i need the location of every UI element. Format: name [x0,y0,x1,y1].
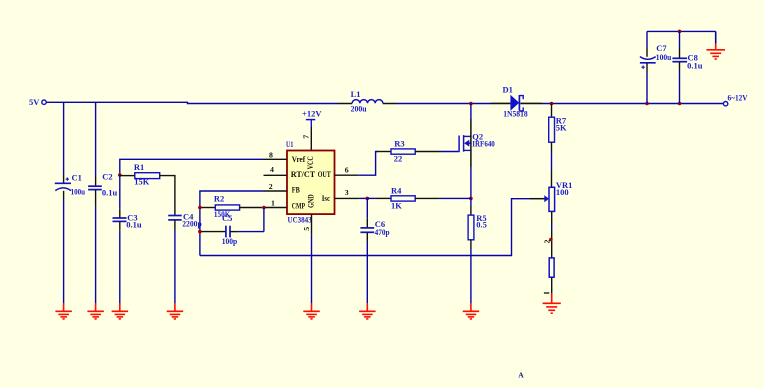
svg-text:R4: R4 [391,186,402,196]
capacitor C2 0.1u [88,172,117,207]
svg-text:2: 2 [269,182,273,191]
pin 3 Isc [335,188,360,199]
svg-text:R2: R2 [214,194,224,204]
wire OUT pin6 net to R3 [358,152,378,176]
svg-text:R1: R1 [134,162,144,172]
transistor Q2 IRF640 MOSFET [459,132,495,153]
svg-text:5K: 5K [556,122,567,132]
ground R5 [463,303,480,319]
wire 5V rail left segment [47,102,338,103]
node junction rail/Q2 drain [469,102,473,106]
capacitor C7 100u electrolytic output [640,31,672,103]
node junction FB/C5 left [198,230,202,234]
wire C1 to ground [63,200,65,304]
svg-text:IRF640: IRF640 [472,139,495,149]
wire R3 to Q2 gate [441,151,458,153]
svg-text:200u: 200u [351,104,367,114]
node junction pin3/C6 [366,197,370,201]
wire CMP node down to C5 right [263,208,265,232]
wire feedback bottom run to VR1 wiper [200,199,530,256]
svg-text:15K: 15K [134,176,150,186]
resistor R4 1K [367,186,439,211]
svg-text:100p: 100p [222,236,238,246]
wire R7 to VR1 [551,151,553,170]
node junction Isc/R4/R5/Q2 source [469,197,473,201]
svg-text:C5: C5 [222,213,232,223]
wire VR1 bottom to R6 [551,211,553,225]
wire Q2 source to Isc node [470,167,472,198]
wire R5 to ground [470,249,472,303]
svg-text:22: 22 [394,154,403,164]
svg-text:FB: FB [292,185,300,195]
svg-text:UC3843: UC3843 [288,214,312,224]
node junction FB/R2 left [198,206,202,210]
node junction rail/C8 [678,102,682,106]
pin 6 OUT [335,166,359,176]
svg-text:6: 6 [345,166,349,175]
resistor R6 lower divider [549,258,554,294]
ground C1 [55,303,72,319]
wire C3 to ground [119,231,121,304]
svg-text:1: 1 [271,198,275,207]
resistor R1 15K [120,162,175,201]
svg-text:U1: U1 [286,139,293,149]
wire C2 column drop [95,102,97,177]
svg-text:3: 3 [345,188,349,197]
node junction R2 right / CMP [262,206,266,210]
node 5V input terminal [29,97,46,107]
capacitor C5 100p [202,213,264,246]
wire C6 to ground [366,242,368,304]
wire C1 column drop [63,102,65,174]
svg-text:GND: GND [306,194,316,208]
resistor R5 0.5 current sense [468,198,487,249]
svg-text:5: 5 [302,227,311,231]
svg-text:L1: L1 [351,89,361,99]
svg-text:8: 8 [269,150,273,159]
svg-text:R3: R3 [394,139,404,149]
capacitor C3 0.1u [113,209,142,231]
wire Vref node down to C3 [119,175,121,209]
pin 8 Vref [264,150,288,159]
ground IC GND pin [303,303,320,319]
svg-text:0.5: 0.5 [476,219,487,229]
resistor R7 5K [549,104,567,152]
svg-text:0.1u: 0.1u [102,187,118,197]
svg-text:100u: 100u [656,52,672,62]
power port +12V [302,109,322,127]
svg-text:RT/CT: RT/CT [291,169,316,179]
svg-text:4: 4 [270,165,274,174]
wire Vref pin8 net [120,159,264,175]
inductor L1 [338,89,396,113]
wire top ground run [647,30,716,32]
svg-text:Isc: Isc [322,193,331,203]
svg-text:6~12V: 6~12V [728,93,749,103]
pin 5 GND bottom pin [302,214,312,234]
ground VR1 column [543,294,561,314]
capacitor C8 0.1u output [672,31,702,103]
svg-text:2200p: 2200p [182,219,202,229]
diode D1 1N5818 [491,84,543,118]
svg-text:Vref: Vref [292,154,305,164]
wire rail D1 to output [542,103,724,105]
wire Q2 drain pin [470,104,472,120]
node output terminal 6~12V [723,93,748,106]
potentiometer VR1 100 [530,180,572,212]
svg-text:C1: C1 [72,172,82,182]
wire rail L1 to D1 [396,103,491,105]
svg-text:+12V: +12V [302,109,322,119]
resistor R3 22 [377,139,441,164]
svg-text:1N5818: 1N5818 [503,109,528,119]
svg-text:7: 7 [302,135,311,139]
svg-text:100: 100 [556,187,569,197]
node junction top wire/C8 [678,30,682,34]
svg-text:C2: C2 [102,172,112,182]
wire Isc pin3 to C6 node [359,197,367,199]
node junction rail/R7 [550,102,554,106]
ground C4 [167,303,184,319]
ground top right [707,31,726,59]
pin 1 CMP [264,198,287,207]
svg-text:A: A [518,370,524,379]
svg-text:CMP: CMP [292,200,305,210]
capacitor C1 100u electrolytic [55,172,86,199]
pin 4 RT/CT (unconnected stub) [264,165,288,175]
svg-text:5V: 5V [29,97,40,107]
pin 2 FB [264,182,288,191]
node junction below VR1 [549,238,553,242]
wire C2 to ground [95,207,97,304]
svg-text:VCC: VCC [305,156,315,169]
capacitor C6 470p [360,198,389,241]
wire FB pin2 net to R2/C5 node [200,191,264,256]
node junction Vref/R1/C3 [118,173,122,177]
svg-text:1K: 1K [391,201,402,211]
wire GND pin to ground [311,234,313,303]
capacitor C4 2200p [168,201,202,230]
op-amp U1 UC3843 controller IC body [286,139,335,224]
svg-text:0.1u: 0.1u [126,220,142,230]
wire R4 to source node [439,197,471,199]
wire C4 to ground [174,230,176,304]
svg-text:470p: 470p [375,227,390,237]
svg-text:0.1u: 0.1u [687,61,703,71]
svg-text:D1: D1 [503,84,513,94]
pin number 1 rotated at R6 bottom [544,292,549,294]
svg-text:OUT: OUT [318,169,331,179]
ground C3 [112,303,129,319]
node junction rail/C7 [645,102,649,106]
ground C2 [87,303,104,319]
ground C6 [359,303,376,319]
resistor R2 150K [202,194,263,219]
svg-text:100u: 100u [71,187,86,197]
pin 7 VCC top pin [302,127,312,151]
